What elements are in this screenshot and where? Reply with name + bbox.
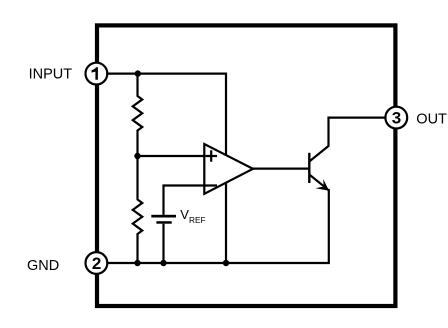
pin 1 circle: [86, 63, 108, 85]
pin 3 circle: [385, 107, 407, 129]
svg-text:REF: REF: [189, 215, 206, 225]
wire: INPUT rail from pin 1 to op-amp V+: [107, 74, 226, 155]
transistor Q1 emitter with arrow: [309, 175, 329, 191]
svg-text:2: 2: [92, 254, 101, 273]
wire: battery bottom to GND rail: [162, 224, 164, 263]
wire: divider tap to op-amp + input: [138, 155, 205, 157]
op-amp U1 triangle: [204, 144, 253, 194]
transistor Q1 collector / wire to pin 3: [309, 118, 384, 162]
node: junction dot input/R1: [135, 70, 141, 76]
wire: emitter down and GND rail to pin 2: [107, 189, 329, 263]
battery VREF top plate: [151, 215, 176, 218]
svg-text:INPUT: INPUT: [29, 66, 73, 82]
IC outline box: [97, 25, 395, 306]
svg-text:3: 3: [392, 109, 401, 128]
node: junction dot op-amp V-/GND rail: [223, 260, 229, 266]
op-amp + input symbol: [206, 150, 218, 161]
resistor R2 (lower divider): [133, 156, 143, 263]
resistor R1 (upper divider): [133, 74, 143, 156]
node: junction dot R2/GND rail: [134, 260, 140, 266]
pin 2 circle: [86, 252, 108, 274]
pin 1 number: [92, 67, 98, 80]
op-amp - input symbol / wire from Vref: [164, 186, 218, 215]
node: junction dot battery/GND rail: [160, 260, 166, 266]
svg-text:OUT: OUT: [416, 111, 447, 127]
svg-text:V: V: [180, 207, 189, 222]
wire: op-amp V- to GND rail: [225, 183, 227, 263]
transistor Q1 emitter arrowhead: [316, 179, 330, 191]
svg-text:GND: GND: [27, 258, 59, 274]
node: junction dot divider tap: [134, 153, 140, 159]
battery VREF bottom plate: [156, 221, 171, 224]
wire: op-amp output to transistor base: [252, 168, 309, 170]
transistor Q1 base bar: [308, 153, 310, 183]
